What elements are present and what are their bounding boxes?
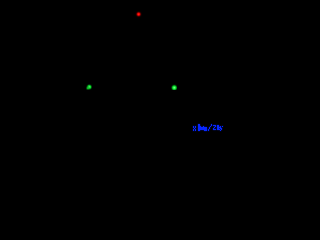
blue camera timestamp "X Aug / 20XX" drawn as pixel art: [0, 0, 225, 135]
green LED indicator light (left): [86, 84, 92, 90]
timestamp crisp pixels: [193, 124, 223, 131]
timestamp blur halo: [193, 124, 223, 131]
green LED left: lower-left tail of glow: [86, 86, 90, 90]
red LED indicator light: [135, 11, 142, 18]
green LED indicator light (right): [171, 84, 177, 90]
